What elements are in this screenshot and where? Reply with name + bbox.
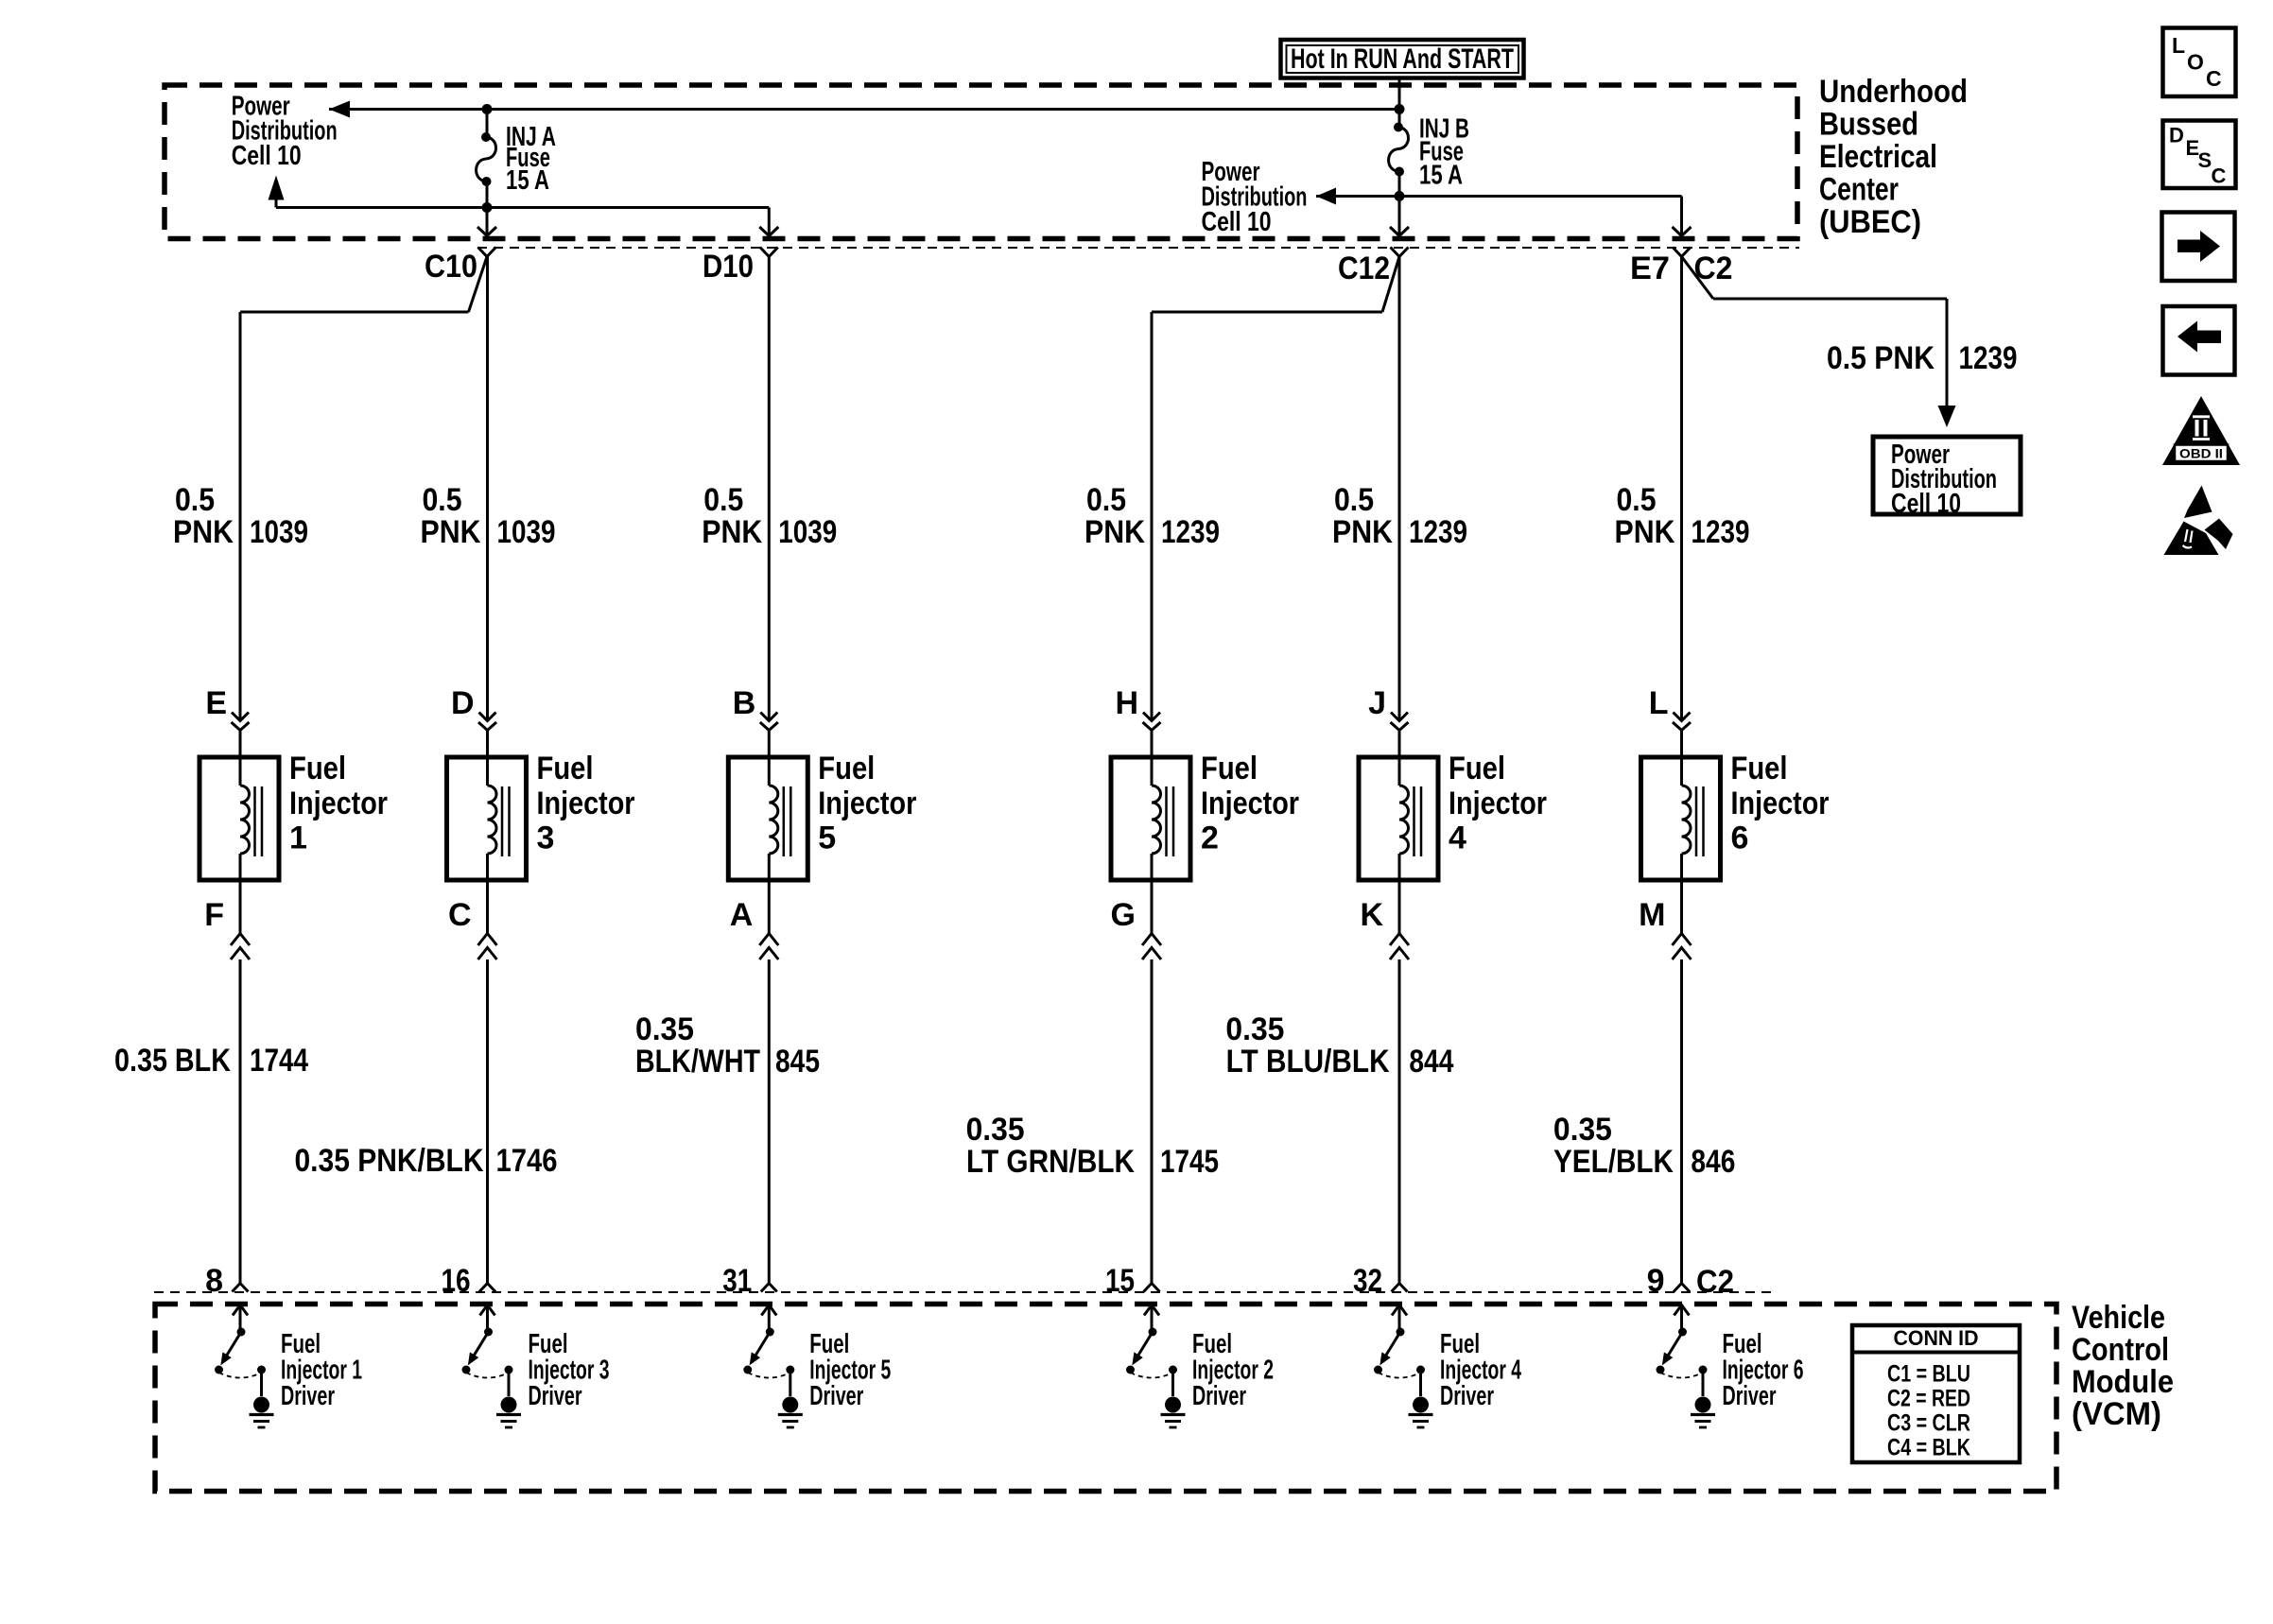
label: 0.5 PNK 1239 (injector 6 feed) [1615,482,1750,550]
svg-text:Bussed: Bussed [1819,107,1918,143]
fuel injector 5 (solenoid) [728,731,807,881]
svg-text:Hot In RUN And START: Hot In RUN And START [1291,43,1514,75]
svg-text:Driver: Driver [1440,1381,1494,1411]
svg-text:1239: 1239 [1959,340,2018,376]
wire: fuse B output down to connector C12 [1398,197,1401,236]
label: 0.5 PNK 1239 (C2 branch) [1827,340,2018,376]
svg-text:Injector: Injector [1731,786,1830,821]
fuel injector 3 (solenoid) [447,731,527,881]
connector E7 (arrow and socket) [1673,227,1692,257]
svg-text:E7: E7 [1630,251,1670,286]
label: 0.35 BLK/WHT 845 [635,1011,820,1080]
svg-text:Center: Center [1819,172,1899,208]
svg-text:C10: C10 [425,249,477,285]
icon: ESD sensitive symbol [2164,486,2233,556]
svg-text:Driver: Driver [529,1381,582,1411]
svg-text:F: F [204,897,224,933]
label: Fuel Injector 2 [1201,751,1299,856]
label: Fuel Injector 1 [289,751,388,856]
CONN ID table [1852,1325,2020,1462]
fuse: INJ A Fuse 15 A [477,110,496,208]
wire: INJ A fuse output bus (left) [276,206,769,209]
connector below fuel injector 1 (pin F) [231,934,250,960]
svg-text:Injector: Injector [289,786,388,821]
label: Fuel Injector 3 [537,751,635,856]
svg-text:Fuel: Fuel [1731,751,1788,786]
wire: bus from Hot feed to left Power Distribution arrow [329,108,1399,111]
svg-text:9: 9 [1647,1263,1665,1299]
wire: injector 1 low side [239,880,242,934]
VCM connector pin 9 (socket) [1674,1284,1690,1292]
label: Underhood Bussed Electrical Center (UBEC) [1819,74,1968,240]
wire: injector 4 return to VCM pin 32 [1398,959,1401,1284]
svg-text:L: L [2172,33,2185,58]
svg-text:PNK: PNK [1084,514,1145,550]
arrowhead to Power Distribution Cell 10 (right) [1316,188,1336,205]
svg-text:6: 6 [1731,821,1749,856]
label: 0.5 PNK 1239 (injector 4 feed) [1332,482,1467,550]
label: Fuel Injector 4 Driver [1440,1329,1521,1411]
svg-text:D: D [451,685,475,721]
power distribution cell 10 box (right) [1873,437,2021,519]
svg-text:Injector: Injector [818,786,916,821]
fuel injector 4 driver (switch to ground) [1374,1305,1425,1397]
svg-text:1746: 1746 [496,1143,558,1179]
wire: injector 6 return to VCM pin 9 [1680,959,1683,1284]
svg-text:0.5: 0.5 [175,482,215,518]
svg-text:Fuel: Fuel [818,751,875,786]
svg-text:0.5: 0.5 [703,482,743,518]
svg-text:B: B [733,685,756,721]
fuel injector 3 driver (switch to ground) [462,1305,513,1397]
svg-text:Injector: Injector [537,786,635,821]
connector below fuel injector 3 (pin C) [478,934,497,960]
svg-text:LT BLU/BLK: LT BLU/BLK [1226,1044,1390,1080]
VCM connector pin 8 (socket) [233,1284,249,1292]
svg-text:1239: 1239 [1692,514,1750,550]
connector at fuel injector 6 (pin L) [1673,713,1691,731]
fuel injector 5 driver (switch to ground) [743,1305,794,1397]
svg-text:C1 = BLU: C1 = BLU [1887,1361,1970,1388]
junction node: fuse B output [1395,191,1405,201]
connector below fuel injector 6 (pin M) [1673,934,1692,960]
label: Fuel Injector 6 [1731,751,1830,856]
svg-text:A: A [730,897,754,933]
svg-text:Driver: Driver [1723,1381,1777,1411]
arrowhead to Power Distribution Cell 10 (left) [329,101,350,118]
svg-text:S: S [2198,148,2212,172]
label: 0.5 PNK 1039 (injector 3 feed) [421,482,556,550]
wire: C12 down to injector 4 [1398,257,1401,721]
svg-text:(UBEC): (UBEC) [1819,204,1921,240]
svg-text:C2 = RED: C2 = RED [1887,1386,1970,1412]
fuel injector 2 (solenoid) [1111,731,1190,881]
svg-text:15 A: 15 A [1419,161,1463,191]
icon: OBD II triangle [2162,396,2240,465]
connector D10 (arrow and socket) [759,227,778,257]
svg-text:M: M [1639,897,1665,933]
VCM connector pin 32 (socket) [1392,1284,1408,1292]
connector at fuel injector 2 (pin H) [1143,713,1161,731]
arrow up to Power Distribution Cell 10 (left) [275,199,278,208]
label: 0.35 PNK/BLK 1746 [295,1143,558,1179]
label: Fuel Injector 2 Driver [1192,1329,1274,1411]
svg-text:3: 3 [537,821,555,856]
svg-text:0.5: 0.5 [423,482,462,518]
ground (injector 3 driver) [496,1397,521,1428]
label: Fuel Injector 1 Driver [281,1329,362,1411]
svg-text:L: L [1649,685,1669,721]
wire: fuse A output down to connector C10 [486,208,489,236]
svg-text:31: 31 [722,1263,752,1299]
wire: Hot In RUN And START feed down into UBEC [1398,78,1401,110]
label: 0.5 PNK 1039 (injector 1 feed) [173,482,308,550]
svg-text:1039: 1039 [250,514,308,550]
connector C12 (arrow and socket) [1390,227,1409,257]
wire: fuse A bus down to connector D10 [768,208,771,236]
svg-text:PNK: PNK [1332,514,1393,550]
svg-text:Cell 10: Cell 10 [1891,489,1961,519]
icon: LOC box [2163,28,2236,97]
fuel injector 4 (solenoid) [1359,731,1438,881]
svg-text:D10: D10 [703,249,754,285]
fuel injector 2 driver (switch to ground) [1126,1305,1177,1397]
wire: C10 branch to injector 1 column [240,257,487,721]
svg-text:844: 844 [1409,1044,1453,1080]
svg-text:0.35: 0.35 [635,1011,694,1047]
junction node: bus / INJ A fuse [482,104,493,114]
label: Vehicle Control Module (VCM) [2072,1300,2174,1432]
svg-text:Fuel: Fuel [1201,751,1258,786]
label: Fuel Injector 4 [1449,751,1547,856]
label: Fuel Injector 3 Driver [529,1329,610,1411]
connector below fuel injector 4 (pin K) [1390,934,1409,960]
label: 0.35 LT BLU/BLK 844 [1225,1011,1453,1080]
svg-text:8: 8 [205,1263,223,1299]
svg-text:PNK: PNK [173,514,234,550]
svg-text:0.35 PNK/BLK: 0.35 PNK/BLK [295,1143,484,1179]
svg-text:C: C [2212,164,2227,188]
connector at fuel injector 5 (pin B) [760,713,778,731]
label: Fuel Injector 6 Driver [1723,1329,1804,1411]
svg-text:0.35: 0.35 [1225,1011,1284,1047]
wire: injector 5 low side [768,880,771,934]
svg-text:Fuel: Fuel [289,751,346,786]
junction node: fuse A output [482,202,493,213]
svg-text:PNK: PNK [1615,514,1675,550]
wire: C2 branch to Power Distribution Cell 10 box [1682,257,1956,428]
icon: forward arrow box [2162,213,2235,282]
svg-text:Control: Control [2072,1332,2169,1368]
svg-text:C: C [448,897,472,933]
ground (injector 6 driver) [1691,1397,1715,1428]
svg-text:5: 5 [818,821,836,856]
svg-text:OBD II: OBD II [2179,447,2223,461]
svg-text:1039: 1039 [497,514,556,550]
svg-text:H: H [1115,685,1138,721]
svg-text:1239: 1239 [1409,514,1467,550]
VCM connector pin 16 (socket) [479,1284,495,1292]
svg-text:Injector: Injector [1201,786,1299,821]
wire: C10 down to injector 3 [486,257,489,721]
svg-text:2: 2 [1201,821,1219,856]
label: Fuel Injector 5 Driver [809,1329,891,1411]
svg-text:Cell 10: Cell 10 [232,141,302,171]
label: 0.35 YEL/BLK 846 [1553,1112,1736,1180]
svg-text:PNK: PNK [702,514,762,550]
svg-text:CONN ID: CONN ID [1894,1326,1979,1350]
fuse: INJ B Fuse 15 A [1389,110,1409,197]
ground (injector 4 driver) [1409,1397,1433,1428]
label: INJ A Fuse 15 A [506,122,556,196]
svg-text:YEL/BLK: YEL/BLK [1553,1144,1674,1180]
fuel injector 6 driver (switch to ground) [1657,1305,1708,1397]
svg-text:C: C [2206,66,2222,91]
svg-text:Driver: Driver [809,1381,863,1411]
label: 0.5 PNK 1239 (injector 2 feed) [1084,482,1220,550]
fuel injector 6 (solenoid) [1641,731,1721,881]
svg-text:J: J [1368,685,1386,721]
VCM connector pin 15 (socket) [1144,1284,1160,1292]
svg-text:Vehicle: Vehicle [2072,1300,2165,1336]
ground (injector 2 driver) [1161,1397,1186,1428]
connector C10 (arrow and socket) [477,227,496,257]
connector at fuel injector 3 (pin D) [478,713,496,731]
svg-text:4: 4 [1449,821,1466,856]
label: Power Distribution Cell 10 (top left) [232,92,338,172]
svg-text:0.35: 0.35 [1553,1112,1612,1148]
label: 0.35 BLK 1744 [114,1043,308,1079]
VCM connector pin 31 (socket) [761,1284,777,1292]
connector at fuel injector 1 (pin E) [232,713,250,731]
wire: injector 2 low side [1151,880,1154,934]
svg-text:1744: 1744 [250,1043,308,1079]
svg-text:0.35 BLK: 0.35 BLK [114,1043,231,1079]
svg-text:15 A: 15 A [506,165,549,196]
svg-text:846: 846 [1691,1144,1735,1180]
svg-text:C12: C12 [1338,251,1390,286]
label: INJ B Fuse 15 A [1419,114,1469,191]
svg-text:K: K [1360,897,1383,933]
svg-text:Driver: Driver [281,1381,335,1411]
svg-text:Fuel: Fuel [537,751,594,786]
svg-text:Cell 10: Cell 10 [1202,207,1272,237]
svg-text:(VCM): (VCM) [2072,1396,2161,1432]
svg-text:O: O [2187,50,2204,75]
connector edge line (thin dashed) of UBEC [477,247,1799,249]
icon: back arrow box [2163,306,2235,375]
wire: INJ B fuse output bus (right) [1316,195,1682,198]
fuel injector 1 driver (switch to ground) [215,1305,266,1397]
svg-text:C4 = BLK: C4 = BLK [1887,1435,1970,1461]
ground (injector 1 driver) [250,1397,274,1428]
wire: injector 2 return to VCM pin 15 [1151,959,1154,1284]
svg-text:0.35: 0.35 [966,1112,1025,1148]
svg-text:Module: Module [2072,1364,2174,1400]
svg-text:G: G [1111,897,1136,933]
junction node: bus / INJ B fuse [1395,104,1405,114]
svg-text:16: 16 [442,1263,471,1299]
connector below fuel injector 2 (pin G) [1142,934,1161,960]
svg-text:1239: 1239 [1161,514,1220,550]
label: Fuel Injector 5 [818,751,916,856]
wire: injector 3 return to VCM pin 16 [486,959,489,1284]
wire: injector 5 return to VCM pin 31 [768,959,771,1284]
svg-text:1: 1 [289,821,307,856]
svg-text:Injector: Injector [1449,786,1547,821]
svg-text:Underhood: Underhood [1819,74,1968,110]
icon: DESC box [2163,121,2236,189]
svg-text:1039: 1039 [778,514,837,550]
wire: injector 6 low side [1680,880,1683,934]
svg-text:15: 15 [1105,1263,1135,1299]
svg-text:Electrical: Electrical [1819,139,1937,175]
svg-text:0.5: 0.5 [1334,482,1374,518]
wire: E7 down to injector 6 [1680,257,1683,721]
label: 0.35 LT GRN/BLK 1745 [966,1112,1219,1180]
wire: injector 1 return to VCM pin 8 [239,959,242,1284]
svg-text:0.5 PNK: 0.5 PNK [1827,340,1935,376]
wire: injector 4 low side [1398,880,1401,934]
svg-text:PNK: PNK [421,514,481,550]
VCM connector edge line (thin dashed) [154,1291,1773,1293]
UBEC enclosure (dashed) [165,85,1797,239]
ground (injector 5 driver) [778,1397,803,1428]
wire: fuse B bus down to connector E7 [1680,197,1683,236]
svg-text:E: E [205,685,227,721]
svg-text:845: 845 [775,1044,820,1080]
wire: C12 branch to injector 2 column [1152,257,1399,721]
svg-text:LT GRN/BLK: LT GRN/BLK [966,1144,1135,1180]
svg-text:C3 = CLR: C3 = CLR [1887,1410,1970,1437]
power source box: Hot In RUN And START [1281,40,1524,78]
svg-text:Fuel: Fuel [1449,751,1505,786]
label: 0.5 PNK 1039 (injector 5 feed) [702,482,837,550]
svg-text:1745: 1745 [1160,1144,1219,1180]
svg-text:C2: C2 [1696,1264,1734,1300]
wire: D10 down to injector 5 [768,257,771,721]
svg-text:D: D [2169,124,2184,147]
svg-text:0.5: 0.5 [1086,482,1126,518]
connector at fuel injector 4 (pin J) [1391,713,1409,731]
svg-text:0.5: 0.5 [1617,482,1657,518]
wire: injector 3 low side [486,880,489,934]
connector below fuel injector 5 (pin A) [759,934,778,960]
label: Power Distribution Cell 10 (inside UBEC right) [1202,157,1308,237]
svg-text:32: 32 [1353,1263,1382,1299]
svg-text:BLK/WHT: BLK/WHT [635,1044,760,1080]
VCM enclosure (dashed) [155,1304,2056,1492]
fuel injector 1 (solenoid) [200,731,279,881]
svg-text:Driver: Driver [1192,1381,1246,1411]
